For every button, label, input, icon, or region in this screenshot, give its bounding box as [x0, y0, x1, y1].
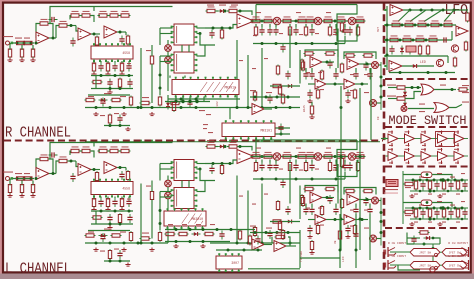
inverter U40 — [388, 152, 398, 161]
svg-text:4558: 4558 — [122, 187, 130, 191]
wire long riser A — [236, 40, 238, 107]
diode D14 — [424, 236, 433, 240]
capacitor C20 — [327, 60, 332, 69]
wire chain opamp top — [216, 10, 218, 12]
svg-text:CLK2: CLK2 — [216, 101, 219, 108]
wire LFO bottom — [389, 72, 455, 74]
wire mid riser (L) — [140, 184, 142, 244]
capacitor C5 — [112, 63, 117, 72]
ground — [345, 235, 350, 239]
resistor R116 — [278, 220, 281, 231]
power connector X1 — [386, 180, 398, 187]
diode D7 — [166, 101, 170, 110]
capacitor C40 — [100, 233, 105, 242]
capacitor C44 — [273, 162, 278, 171]
resistor R94 — [336, 152, 347, 158]
node chain in bus — [212, 27, 215, 30]
node pre-chain top — [224, 145, 227, 148]
resistor R59 — [108, 114, 111, 125]
resistor R24 — [140, 101, 151, 104]
wire stage box A — [305, 186, 338, 193]
ground — [149, 248, 154, 252]
wire right edge column — [380, 62, 382, 110]
wire DIP right outs — [197, 163, 206, 165]
wire under-IC bus — [91, 75, 133, 77]
wire buffer in/out — [435, 138, 438, 140]
vactrol (LED/LDR) VTL1 — [406, 46, 416, 52]
label gate1 out nets — [440, 85, 446, 86]
capacitor C22 — [303, 71, 308, 80]
crystal oscillator oval — [421, 200, 432, 206]
wire chain main — [252, 156, 364, 158]
wire opamp2 out — [91, 33, 100, 35]
ground — [107, 226, 112, 230]
ground — [307, 235, 312, 239]
resistor R75 — [106, 197, 109, 208]
svg-text:MODE SWITCH: MODE SWITCH — [389, 113, 467, 128]
node jack cluster — [423, 243, 426, 246]
diode D12 — [403, 90, 407, 99]
wire LFO slanted drops — [398, 10, 410, 22]
resistor R90 — [282, 152, 293, 158]
capacitor C59 — [345, 225, 350, 234]
inverter U36 — [405, 134, 415, 143]
transistor Q1 — [451, 45, 458, 52]
wire opamp1 out — [49, 173, 56, 175]
op-amp U12 — [252, 104, 264, 115]
wire stage drop — [335, 204, 337, 208]
wire buffer pin stub bottom — [408, 143, 410, 147]
wire chain return right — [344, 172, 346, 180]
wire chain drop — [329, 24, 331, 27]
capacitor C9 — [100, 98, 105, 107]
wire under BBD L bus B — [165, 241, 230, 243]
wire pots riser — [167, 176, 169, 181]
clock second mini row — [414, 222, 418, 223]
resistor R93 — [323, 152, 334, 158]
wire chain drop — [344, 160, 346, 163]
resistor R38 — [254, 26, 257, 37]
potentiometer P5 — [348, 17, 356, 25]
resistor R70 — [98, 146, 109, 152]
resistor R106 — [363, 189, 374, 192]
resistor R146 — [414, 180, 417, 191]
wire buffer in/out — [452, 155, 455, 157]
svg-text:JFET SW: JFET SW — [419, 251, 431, 254]
ground — [409, 194, 414, 198]
inverter U42 — [421, 152, 431, 161]
resistor R20 — [118, 78, 121, 89]
R/L channel dashed separator — [4, 139, 383, 141]
logic gate U34 — [434, 103, 449, 113]
wire IC2 R drop bus — [266, 133, 290, 135]
wire second stage outs — [326, 219, 341, 221]
wire LFO row2 — [388, 24, 456, 26]
resistor R97 — [288, 161, 291, 172]
labels mid risers — [239, 196, 243, 197]
resistor R136 — [389, 35, 400, 41]
wire under-IC bus — [91, 210, 133, 212]
ground — [125, 127, 130, 131]
capacitor C62 — [117, 250, 122, 259]
IC U27 — [164, 208, 206, 229]
wire buffer pin stub top — [408, 131, 410, 135]
resistor R142 — [453, 57, 456, 68]
potentiometer P14 — [370, 235, 377, 242]
buffer box bottom dashed border — [385, 165, 471, 167]
inverter U37 — [421, 134, 431, 143]
resistor R34 — [305, 16, 316, 22]
node LFO bottom — [399, 71, 402, 74]
wire stage B out — [359, 199, 372, 201]
logic gate U33 — [421, 84, 434, 95]
resistor R111 — [300, 194, 303, 205]
resistor R46 — [301, 61, 304, 72]
wire chain drop — [311, 160, 313, 163]
diode D8 — [192, 232, 201, 236]
wire mode group2 to gate — [388, 98, 397, 100]
svg-text:R CH OUTPUT: R CH OUTPUT — [448, 242, 468, 245]
wire pin drop — [100, 197, 102, 199]
op-amp U20 — [310, 192, 322, 203]
capacitor C43 — [267, 162, 272, 171]
wire clock mid bus — [405, 179, 468, 181]
resistor R3 — [23, 41, 34, 44]
ground — [173, 244, 178, 248]
resistor R28 — [228, 6, 239, 12]
label cluster left of IC2 (R) — [203, 124, 208, 125]
capacitor C39 — [127, 214, 132, 223]
capacitor C65 — [219, 231, 224, 240]
resistor R113 — [253, 226, 256, 237]
wire chain drop — [357, 24, 359, 27]
wire left riser — [299, 50, 301, 84]
wire buffer feed left — [381, 138, 388, 140]
resistor R11 — [95, 36, 98, 47]
wire lower cluster bus — [85, 107, 168, 109]
svg-text:LFO: LFO — [342, 256, 345, 262]
wire buffer pin stub top — [424, 131, 426, 135]
resistor R122 — [172, 101, 175, 112]
resistor R50 — [320, 70, 323, 81]
wire mid riser (R) — [140, 48, 142, 108]
op-amp U14 — [78, 164, 91, 176]
ground — [19, 58, 24, 62]
resistor R138 — [415, 35, 426, 41]
phone jack J1 — [388, 247, 396, 257]
labels second stage — [320, 225, 324, 226]
resistor R21 — [85, 98, 96, 101]
wire riser to top feed — [93, 142, 95, 147]
wire buffer pin stub top — [408, 148, 410, 152]
diode D6 — [286, 220, 295, 224]
capacitor C10 — [209, 30, 214, 39]
wire resistor to opamp2 — [68, 160, 76, 162]
ground — [437, 222, 442, 226]
wire top return — [255, 140, 257, 157]
resistor R76 — [120, 197, 123, 208]
resistor R143 — [396, 86, 407, 89]
wire chain lower bus — [253, 178, 345, 180]
capacitor C37 — [126, 198, 131, 207]
wire long horizontal net under separator — [85, 141, 380, 143]
capacitor C38 — [107, 214, 112, 223]
wire right edge column — [380, 198, 382, 246]
resistor R88 — [251, 152, 262, 158]
node lower-mid bus2 — [109, 260, 112, 263]
resistor R56 — [281, 94, 284, 105]
clock extra nodes — [426, 201, 429, 204]
op-amp U9 — [347, 59, 359, 70]
op-amp U30 — [390, 5, 403, 16]
wire buffer pin stub bottom — [441, 161, 443, 165]
resistor R12 — [98, 11, 109, 17]
wire feedback loop — [36, 24, 39, 39]
wire LFO top bus — [403, 9, 468, 11]
ground — [19, 194, 24, 198]
label clock left — [405, 215, 411, 216]
capacitor C70 — [420, 181, 425, 190]
wire chain drop — [275, 160, 277, 163]
wire under BBD bus2 — [165, 101, 210, 103]
inverter U39 — [454, 134, 464, 143]
wire mid horizontal y97 — [250, 232, 300, 234]
resistor R114 — [281, 229, 284, 240]
wire DIP left feeds — [160, 27, 173, 29]
ground — [119, 208, 124, 212]
resistor R148 — [442, 180, 445, 191]
wire under BBD pin drops — [175, 97, 177, 102]
node right edge column — [380, 76, 383, 79]
resistor R83 — [158, 231, 161, 242]
diode D3 — [286, 84, 295, 88]
labels pre-chain top — [207, 140, 214, 141]
diode D4 — [99, 234, 108, 238]
wire over opamp2 — [69, 16, 71, 20]
resistor R100 — [356, 161, 359, 172]
wire LFO row3 — [388, 39, 452, 41]
capacitor C27 — [307, 90, 312, 99]
wire clock lower bus — [410, 190, 468, 192]
resistor R48 — [363, 54, 374, 57]
resistor R66 — [58, 156, 69, 162]
potentiometer P3 — [273, 17, 281, 25]
wire buffer in/out — [419, 155, 422, 157]
potentiometer P10 — [273, 153, 281, 161]
node second stage — [334, 218, 337, 221]
phone jack J4 — [461, 260, 469, 270]
capacitor C41 — [209, 165, 214, 174]
capacitor C30 — [285, 71, 290, 80]
wire stage3 top — [98, 15, 100, 17]
resistor R103 — [325, 187, 336, 190]
resistor R150 — [404, 182, 415, 185]
resistor R55 — [253, 91, 256, 102]
capacitor C42 — [259, 162, 264, 171]
resistor R39 — [288, 26, 291, 37]
node bottom mid — [339, 249, 342, 252]
wire stage drop — [305, 68, 307, 72]
ground — [30, 58, 35, 62]
wire left riser — [299, 186, 301, 220]
resistor R118 — [310, 105, 313, 116]
svg-text:MN3101: MN3101 — [261, 128, 273, 132]
resistor R99 — [328, 161, 331, 172]
wire pin drop — [100, 61, 102, 63]
resistor R13 — [109, 11, 120, 17]
diode D1 — [99, 98, 108, 102]
wire big loop rectangle — [289, 164, 291, 204]
wire second row bus — [91, 223, 133, 225]
resistor R92 — [305, 152, 316, 158]
wire riser to top feed — [93, 7, 95, 12]
capacitor C60 — [267, 230, 272, 239]
nodes clock lower — [419, 190, 422, 193]
capacitor C49 — [280, 179, 285, 188]
wire stage box A — [305, 50, 338, 57]
nodes LFO row2 — [401, 24, 404, 27]
wire chain drop — [335, 160, 337, 163]
wire chain drop — [305, 24, 307, 27]
wire chain drop — [344, 24, 346, 27]
svg-text:VB: VB — [334, 240, 337, 244]
capacitor C33 — [70, 173, 75, 182]
wire buffer pin stub top — [424, 148, 426, 152]
L channel input connector J — [6, 177, 14, 181]
resistor R80 — [111, 234, 122, 237]
capacitor C56 — [353, 206, 358, 215]
resistor R152 — [428, 208, 431, 219]
capacitor C14 — [293, 27, 298, 36]
capacitor C69 — [389, 46, 394, 55]
resistor R30 — [251, 16, 262, 22]
wire feedback loop — [36, 159, 39, 174]
diode D10 — [408, 46, 412, 55]
wire cluster under stages R — [311, 102, 313, 105]
wire mid riser — [151, 45, 153, 56]
resistor R85 — [206, 142, 217, 148]
diode D13 — [403, 101, 407, 110]
ground — [437, 194, 442, 198]
node mid bus bridge — [180, 106, 183, 109]
resistor R156 — [419, 231, 430, 234]
resistor R23 — [129, 96, 132, 107]
labels mid risers — [239, 60, 243, 61]
wire buffer in/out — [402, 138, 405, 140]
capacitor C4 — [98, 63, 103, 72]
diode D2 — [218, 9, 227, 13]
wire lower cluster bus — [85, 242, 168, 244]
IC U17 — [171, 160, 198, 181]
phone jack J2 — [461, 247, 469, 257]
resistor R81 — [129, 231, 132, 242]
wire stage drop — [305, 204, 307, 208]
wire mid bus — [210, 242, 300, 244]
wire BBD R feeds — [169, 76, 171, 78]
svg-text:JFET SW: JFET SW — [449, 251, 461, 254]
wire jack bottom link — [398, 265, 420, 270]
capacitor C26 — [367, 71, 372, 80]
resistor R105 — [345, 189, 356, 192]
small circle contact — [434, 253, 437, 256]
op-amp U24 — [252, 239, 264, 250]
resistor R149 — [456, 180, 459, 191]
wire stage3 drop — [125, 32, 127, 35]
op-amp U23 — [344, 215, 355, 225]
wire chain drop — [255, 24, 257, 27]
inverter U38 — [438, 134, 448, 143]
node gate1 out — [451, 88, 454, 91]
wire L bottom bus — [216, 249, 262, 251]
wire clock columns — [415, 180, 417, 182]
wire pin drop — [107, 197, 109, 199]
resistor R98 — [304, 161, 307, 172]
wire pin drop — [114, 61, 116, 63]
wire DIP trunk down — [159, 197, 161, 231]
potentiometer P4 — [314, 17, 322, 25]
analog switch SW3 — [410, 262, 440, 270]
resistor R4 — [8, 48, 11, 59]
wire second stage ins — [308, 83, 315, 85]
wire DIP trunk down — [159, 62, 161, 96]
node lower-mid bus2 — [109, 124, 112, 127]
resistor R6 — [31, 48, 34, 59]
op-amp U22 — [315, 215, 326, 225]
pad buffer feed — [384, 138, 386, 140]
clock extra specks — [419, 177, 424, 178]
resistor R74 — [92, 197, 95, 208]
labels second stage — [320, 89, 324, 90]
wire pin drop — [114, 197, 116, 199]
resistor R124 — [178, 232, 189, 235]
node mid riser R — [140, 106, 143, 109]
IC U5 — [171, 24, 198, 45]
wire pots to column — [379, 64, 382, 66]
capacitor C16 — [333, 27, 338, 36]
wire chain opamp out — [254, 20, 258, 22]
capacitor C19 — [347, 27, 352, 36]
wire opamp2 out — [91, 169, 100, 171]
wire jack bus down — [432, 244, 434, 262]
capacitor C73 — [462, 181, 467, 190]
wire long vertical net B — [359, 88, 361, 250]
LFO box bottom dashed border — [385, 78, 471, 80]
resistor R112 — [272, 220, 283, 223]
ground — [125, 263, 130, 267]
node jack bus — [432, 247, 435, 250]
resistor R86 — [228, 142, 239, 148]
resistor R36 — [336, 16, 347, 22]
wire buffer in/out — [386, 155, 389, 157]
capacitor C55 — [333, 206, 338, 215]
node net A crossings — [340, 106, 343, 109]
capacitor C32 — [49, 152, 58, 157]
wire feedback to output — [49, 24, 53, 39]
wire DIP left feeds — [160, 163, 173, 165]
capacitor C36 — [112, 198, 117, 207]
node mode inputs — [411, 86, 414, 89]
wire over opamp2 — [69, 151, 71, 155]
wire buffer pin stub bottom — [391, 161, 393, 165]
wire mode group1 to gate — [388, 87, 397, 89]
wire stage drop — [335, 68, 337, 72]
wire chain opamp in — [205, 25, 237, 29]
resistor R71 — [109, 146, 120, 152]
resistor R133 — [430, 20, 441, 26]
capacitor C66 — [255, 236, 260, 245]
wire big loop rectangle — [289, 29, 291, 69]
ground — [105, 208, 110, 212]
